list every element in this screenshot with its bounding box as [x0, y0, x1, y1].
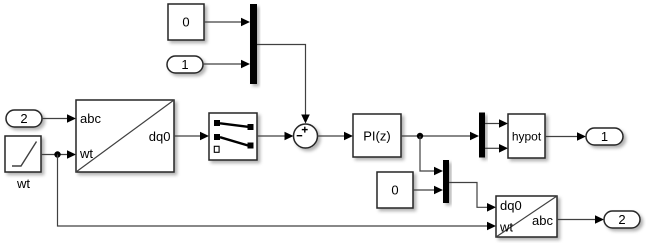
constant C2 value 0	[377, 172, 413, 208]
svg-text:2: 2	[618, 212, 625, 227]
svg-text:abc: abc	[532, 213, 553, 228]
svg-text:wt: wt	[16, 176, 30, 191]
svg-text:PI(z): PI(z)	[363, 129, 390, 144]
dq0 to abc transform block	[496, 196, 557, 237]
wire dq0 output to selector	[174, 132, 209, 141]
ramp source block wt	[5, 136, 41, 191]
wire C2 to Mux2 input 2	[413, 186, 443, 195]
wire demux out2 to hypot	[485, 144, 508, 153]
svg-text:1: 1	[181, 57, 188, 72]
abc to dq0 transform block	[76, 100, 174, 172]
constant C1 value 0	[168, 4, 204, 40]
hypot block	[508, 114, 545, 158]
svg-text:1: 1	[601, 129, 608, 144]
wire inport1 to Mux1	[203, 60, 250, 69]
svg-text:2: 2	[20, 111, 27, 126]
wire demux out1 to hypot	[485, 119, 508, 128]
mux Mux1	[250, 4, 257, 84]
wire C1 to Mux1	[204, 18, 250, 27]
svg-text:0: 0	[391, 183, 398, 198]
demux	[479, 113, 485, 158]
sum block	[294, 124, 318, 148]
wire Mux2 to dq0-abc input	[449, 183, 496, 212]
wire Mux1 to sum plus input	[257, 45, 310, 124]
junction node wt	[54, 151, 60, 157]
PI(z) controller block	[353, 114, 401, 157]
svg-text:abc: abc	[80, 111, 101, 126]
wire sum to PI(z)	[318, 132, 354, 141]
svg-text:dq0: dq0	[149, 129, 171, 144]
mux Mux2	[443, 160, 449, 203]
svg-text:hypot: hypot	[512, 130, 542, 144]
wire hypot to outport 1	[545, 132, 586, 141]
wire inport2 to abc input	[42, 114, 76, 123]
svg-text:0: 0	[182, 15, 189, 30]
wire selector to sum	[257, 132, 294, 141]
inport 1	[167, 56, 203, 73]
outport 2	[604, 211, 640, 228]
wire wt junction bottom rail to dq0-abc wt input	[58, 155, 497, 231]
svg-text:wt: wt	[499, 220, 513, 235]
wire dq0-abc to outport 2	[557, 215, 604, 224]
outport 1	[586, 128, 623, 145]
svg-text:wt: wt	[79, 146, 93, 161]
wire PI junction to Mux2 input 1	[420, 136, 443, 175]
wire PI(z) to demux	[401, 132, 479, 141]
junction node PI output	[417, 133, 423, 139]
inport 2	[6, 110, 42, 127]
wire ramp to abc-dq0 wt input	[41, 150, 76, 159]
svg-text:dq0: dq0	[500, 198, 522, 213]
selector block	[209, 113, 257, 160]
